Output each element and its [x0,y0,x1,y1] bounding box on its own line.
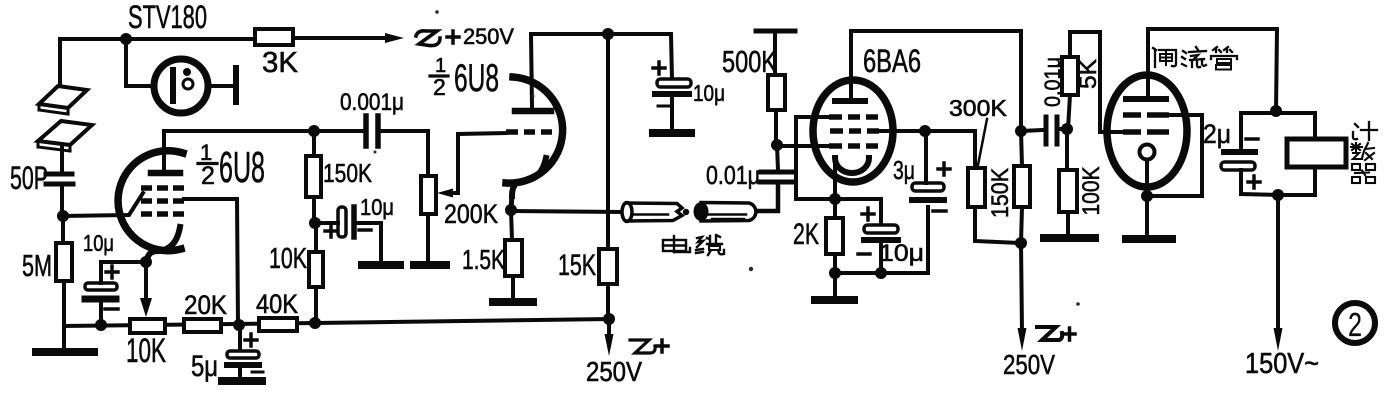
svg-text:50P: 50P [10,160,48,196]
resistor 5M [56,243,72,281]
wire grid V2 [777,144,829,148]
tube STV180 anode dot [183,79,193,89]
svg-text:250V: 250V [463,24,514,49]
tube V1b grid [506,129,552,135]
counter box [1287,139,1346,167]
junction D16 [875,267,887,279]
wire 3K to arrow [292,36,389,40]
label counter zh shu [1351,143,1374,160]
wire cathode out [511,211,621,212]
tube thyratron grids [1123,115,1169,132]
junction D12 [602,28,614,40]
capacitor 10u plate bypass [657,79,691,87]
capacitor 10u cathode 6BA6 [835,199,881,225]
junction D11 [603,313,615,325]
tube STV180 gas dot [183,68,191,76]
tube STV180 envelope [154,59,208,113]
resistor 150K right [1014,166,1030,207]
tube STV180 cathode bar [170,70,176,101]
rail 6BA6 plate [851,31,1021,131]
wire g3 to cathode [796,117,835,199]
resistor 300K [968,168,985,207]
svg-text:6U8: 6U8 [219,143,265,192]
tube V1b cathode [512,158,546,196]
arrow B+ right [1021,243,1022,332]
ground G9 [1126,235,1172,243]
svg-text:5M: 5M [22,248,52,283]
junction D15 [829,267,841,279]
svg-text:250V: 250V [586,356,642,387]
svg-text:150K: 150K [323,158,373,188]
ground G5 [493,298,533,306]
tube V1b plate [515,108,551,115]
capacitor 10u interstage [338,207,346,237]
wire cathode node to pot wiper arrow [144,262,148,301]
svg-text:2: 2 [1348,306,1362,343]
wire 5M to bottom rail [62,281,66,326]
capacitor 2u branch [1241,113,1276,149]
label B+ 250V top: zh yi [416,31,440,46]
junction D20 [1015,237,1027,249]
svg-text:10μ: 10μ [693,80,725,106]
resistor 20K [184,319,221,332]
junction D18 [1015,125,1027,137]
tube 6BA6 envelope [813,80,893,182]
junction D2 [57,210,69,222]
resistor 5K [1068,95,1070,129]
junction D4 [95,319,107,331]
svg-text:5K: 5K [1075,59,1102,89]
svg-text:40K: 40K [256,289,298,319]
capacitor 3u [912,183,944,191]
tube V1a cathode [147,227,180,262]
terminal bar STV180 right [233,68,239,102]
resistor 10K vertical [309,252,323,287]
junction D19 [1061,123,1073,135]
junction D14 [829,193,841,205]
svg-text:10μ: 10μ [360,194,394,220]
svg-text:0.01μ: 0.01μ [706,160,760,190]
ground G1 [62,326,66,349]
wire 15K top lead [606,34,610,249]
label cable zh dian [663,236,690,252]
wire V1a grid right to divider [184,199,238,325]
svg-text:2K: 2K [793,218,819,251]
junction D13 [771,139,783,151]
wire D1 to STV180 tube [126,39,171,86]
svg-text:2: 2 [433,74,446,100]
tube V1a half-6U8 envelope [118,151,183,251]
capacitor 0.01u coupling 2 [1021,130,1043,131]
ground G8 [1044,234,1095,242]
svg-text:100K: 100K [1078,167,1105,216]
tube 6BA6 cathode [835,158,869,173]
detector plate lower [38,121,92,145]
svg-text:10K: 10K [269,243,307,275]
wire cable to 0.01u [757,186,778,211]
arrow B+ mid [607,319,611,338]
junction D17 [919,125,931,137]
svg-text:6U8: 6U8 [454,57,499,100]
svg-text:2μ: 2μ [1203,119,1231,149]
svg-text:150V~: 150V~ [1245,348,1319,380]
resistor 150K [306,156,321,197]
figure number circled 2 [1335,303,1375,343]
junction D23 [1272,189,1284,201]
junction D10 [505,204,517,216]
wire grid node to tube V1a grid [63,193,143,216]
tube 6BA6 plate [835,98,865,104]
arrow 150V [1276,195,1280,331]
bottom rail left [64,319,609,326]
wire 10u to ground [356,223,381,260]
ground G7 [815,296,854,304]
wire 10u to ground [670,97,674,129]
junction D3 [140,256,152,268]
capacitor 0.01u input [761,170,793,175]
rail V1b plate top [531,34,672,79]
tube 6BA6 grids [829,117,879,146]
wire D2 down to 5M [61,216,65,243]
detector plate upper [39,86,87,108]
junction D7 [308,125,320,137]
wire 50P to grid node [60,186,64,216]
wire down to detector plate [58,39,62,96]
cable segment 1 [622,203,632,222]
wire V1a plate to coupling [164,129,364,133]
ground G4 [414,261,446,269]
resistor 500K [774,110,778,145]
wire cathode lead [833,162,837,199]
scan speckles [374,10,1080,306]
wire 150K bottom to 10u [315,221,338,225]
resistor 3K [255,29,293,45]
wiper arrow 200K to V1b grid [448,133,506,193]
resistor 1.5K [511,210,512,240]
svg-text:200K: 200K [444,199,498,229]
junction D5 [233,319,245,331]
label cable zh lan [696,235,724,255]
label thyratron zh zha [1153,48,1176,67]
capacitor 0.001u [363,116,369,146]
svg-text:10K: 10K [126,332,166,370]
resistor 15K [599,249,617,284]
wire STV180 right lead [208,84,236,88]
wire grid2 loop to cathode [1147,115,1202,196]
tube V1b half-6U8 envelope [506,77,563,183]
label counter zh qi [1352,164,1375,183]
label thyratron zh liu [1182,47,1206,67]
rail thyratron top [1148,29,1277,111]
junction D8 [309,217,321,229]
svg-text:250V: 250V [1003,349,1055,380]
svg-text:10μ: 10μ [83,230,114,256]
svg-text:3μ: 3μ [893,155,915,185]
svg-text:15K: 15K [558,249,596,282]
junction D24 [1141,190,1153,202]
wire top-left B+ rail [60,37,256,41]
svg-text:500K: 500K [722,44,777,79]
svg-text:0.001μ: 0.001μ [340,89,404,116]
terminal bar 500K top [756,29,795,34]
ground G6 [653,129,691,137]
wire 200K to ground [426,214,430,261]
node arrow B+ 250V top [385,33,404,43]
resistor 200K pot [421,176,436,214]
capacitor 50P [46,172,72,177]
tube V1a grid [141,188,184,214]
resistor 10K pot [130,319,165,333]
svg-text:10μ: 10μ [879,240,924,267]
tube thyratron plate [1126,96,1166,102]
tube V1a plate [151,170,180,177]
capacitor 10u cathode V1a [85,283,117,290]
resistor 40K [259,318,297,331]
tube thyratron envelope [1107,75,1187,187]
junction D6 [309,317,321,329]
wire 10u to cathode node [101,262,146,283]
junction D1 [120,33,132,45]
svg-text:5μ: 5μ [191,350,218,383]
label thyratron zh guan [1211,47,1237,70]
svg-text:1.5K: 1.5K [462,244,505,275]
svg-text:STV180: STV180 [128,0,207,35]
wire g2 to 300K [925,131,975,168]
svg-text:2: 2 [201,162,215,190]
svg-text:20K: 20K [184,290,227,320]
tube thyratron cathode [1140,145,1155,160]
wire 10u to rail [99,302,103,325]
wire cathode net bottom [835,207,928,273]
resistor 2K [833,199,837,218]
junction D22 [1270,105,1282,117]
wire 0.001u to 200K [380,131,428,176]
ground G3 [362,261,400,269]
cable segment 2 [694,202,709,221]
svg-text:3K: 3K [262,47,299,79]
wire plate to 50P [60,147,64,172]
wire g2 out [877,129,925,133]
svg-text:6BA6: 6BA6 [863,43,921,79]
capacitor 5u [238,325,242,351]
svg-text:150K: 150K [987,168,1014,218]
resistor 100K [1065,129,1069,170]
svg-text:300K: 300K [949,95,1008,121]
counter branch [1276,113,1315,139]
label counter zh ji [1353,122,1377,140]
